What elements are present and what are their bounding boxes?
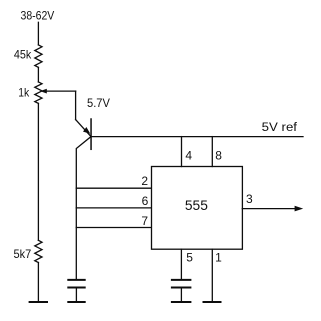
svg-text:8: 8 [215,148,222,162]
svg-text:5V ref: 5V ref [262,120,298,134]
svg-text:38-62V: 38-62V [21,9,55,23]
svg-text:5.7V: 5.7V [87,96,110,110]
svg-text:7: 7 [141,214,148,228]
svg-text:5: 5 [186,250,193,264]
svg-text:5k7: 5k7 [14,247,32,261]
svg-text:45k: 45k [14,47,32,61]
svg-text:4: 4 [185,149,192,163]
svg-text:1k: 1k [18,86,30,100]
svg-text:3: 3 [246,192,253,206]
svg-text:6: 6 [142,194,149,208]
svg-text:555: 555 [185,198,208,213]
svg-text:2: 2 [141,174,148,188]
svg-text:1: 1 [215,250,222,264]
